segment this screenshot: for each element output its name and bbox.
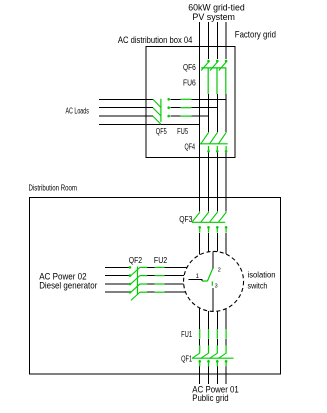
wire L3 (phase bus 4) vertical segments (225, 22, 227, 384)
enclosure: Distribution Room (29, 197, 280, 374)
isolation switch: blade (green) (202, 268, 213, 281)
label: 60kW grid-tied PV system (188, 1, 244, 21)
wire L1 (phase bus 2) vertical segments (208, 22, 210, 384)
breaker QF3 (4-pole) (192, 212, 228, 233)
svg-text:FU1: FU1 (181, 330, 192, 339)
isolation switch: pole output (bottom) (212, 288, 214, 312)
svg-text:QF6: QF6 (183, 63, 196, 72)
isolation switch S1 (dashed circle) (184, 251, 244, 311)
switch QF5 (3-pole, on loads lines) (153, 98, 170, 124)
breaker QF6 (3-pole) (201, 60, 227, 71)
label: isolation switch (248, 271, 276, 291)
label: AC Power 01 / Public grid (192, 383, 239, 403)
wire: generator line 1 (105, 266, 187, 268)
svg-text:QF5: QF5 (156, 127, 167, 136)
fuse FU1 (4 green links) (200, 329, 226, 339)
label: AC Power 02 / Diesel generator (39, 270, 97, 290)
svg-text:QF1: QF1 (181, 355, 192, 364)
svg-text:FU5: FU5 (177, 127, 188, 136)
svg-text:QF3: QF3 (179, 215, 193, 224)
svg-text:3: 3 (215, 284, 218, 290)
enclosure: AC distribution box 04 (146, 47, 235, 158)
svg-text:Factory grid: Factory grid (235, 29, 276, 40)
isolation switch: pole common (top) (212, 252, 214, 269)
svg-text:Public grid: Public grid (192, 392, 228, 403)
wire: AC loads neutral line 4 (99, 124, 200, 126)
wire: AC loads feeder line 3 (99, 115, 209, 117)
breaker QF4 (3-pole) (200, 132, 228, 152)
wire: AC loads feeder line 2 (99, 107, 217, 109)
svg-text:QF4: QF4 (185, 142, 196, 151)
wire: generator line 2 (105, 275, 184, 277)
svg-text:FU2: FU2 (154, 256, 168, 265)
wire N (phase bus 1) vertical segments (199, 22, 201, 384)
svg-text:FU6: FU6 (183, 79, 196, 88)
wire L2 (phase bus 3) vertical segments (216, 22, 218, 384)
svg-text:2: 2 (218, 267, 221, 273)
switch QF2 (4-pole, generator feed) (129, 266, 148, 300)
svg-text:PV system: PV system (192, 11, 235, 22)
svg-text:AC Loads: AC Loads (66, 106, 89, 115)
svg-text:isolation: isolation (248, 271, 276, 280)
svg-text:Diesel generator: Diesel generator (39, 280, 97, 291)
svg-text:QF2: QF2 (129, 256, 143, 265)
fuse FU5 (3 green links) (181, 99, 192, 116)
fuse FU2 (4 green links) (154, 267, 164, 292)
breaker QF1 (4-pole) (192, 345, 234, 366)
fuse FU6 (3 green links) (208, 69, 226, 95)
svg-text:switch: switch (248, 281, 268, 290)
wire: generator line 4 (105, 291, 186, 293)
svg-text:Distribution Room: Distribution Room (29, 183, 78, 192)
isolation switch: bottom contact stub (green) (211, 281, 213, 285)
isolation switch: generator throw wire (189, 280, 203, 282)
wire: generator line 3 (105, 283, 184, 285)
svg-text:AC distribution box 04: AC distribution box 04 (118, 35, 192, 45)
wire: AC loads feeder line 1 (99, 98, 226, 100)
